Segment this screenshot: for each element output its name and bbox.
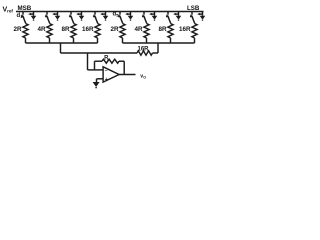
ground throw of switch S3 xyxy=(76,12,84,21)
resistor 16R (bit 4) xyxy=(82,24,100,44)
switch S5 (bit d5) xyxy=(118,12,123,24)
label d5 xyxy=(113,12,120,18)
svg-text:4R: 4R xyxy=(134,26,143,33)
switch S7 (bit d7) xyxy=(166,12,171,24)
wire: MSB group bottom bus xyxy=(26,42,98,44)
switch S1 (bit d1) xyxy=(21,12,26,24)
switch S6 (bit d6) xyxy=(142,12,147,24)
switch S8 (bit d8) xyxy=(190,12,195,24)
svg-text:vO: vO xyxy=(140,74,146,80)
label d1 xyxy=(17,13,24,19)
svg-text:8R: 8R xyxy=(158,26,167,33)
svg-text:2R: 2R xyxy=(13,26,22,33)
svg-text:d1: d1 xyxy=(17,13,24,19)
wire: V_REF top rail xyxy=(16,11,204,13)
resistor 4R (bit 2) xyxy=(37,24,52,44)
svg-text:MSB: MSB xyxy=(18,5,32,12)
resistor 4R (bit 6) xyxy=(134,24,149,44)
wire: non-inverting input to ground xyxy=(97,79,104,82)
svg-text:LSB: LSB xyxy=(187,5,200,12)
wire: LSB group bottom bus xyxy=(123,42,195,44)
svg-text:+: + xyxy=(105,77,108,83)
ground throw of switch S8 xyxy=(197,12,205,21)
svg-text:R: R xyxy=(104,55,109,61)
svg-text:16R: 16R xyxy=(179,26,191,33)
ground throw of switch S4 xyxy=(100,12,108,21)
svg-text:16R: 16R xyxy=(137,47,149,53)
svg-text:16R: 16R xyxy=(82,26,94,33)
ground (op-amp + input) xyxy=(93,82,100,88)
ground throw of switch S7 xyxy=(173,12,181,21)
wire: 16R up to LSB bus xyxy=(157,43,159,53)
resistor 8R (bit 7) xyxy=(158,24,173,44)
label LSB xyxy=(187,5,200,12)
resistor 16R (bit 8) xyxy=(179,24,197,44)
wire: op-amp output xyxy=(119,74,135,76)
resistor 8R (bit 3) xyxy=(61,24,76,44)
resistor 16R (series current divider) xyxy=(137,47,158,56)
wire: feedback down to output xyxy=(123,61,125,74)
switch S3 (bit d3) xyxy=(69,12,74,24)
node vO output label xyxy=(140,74,146,80)
op-amp U1 xyxy=(103,67,119,83)
ground throw of switch S1 xyxy=(28,12,36,21)
svg-text:Vref: Vref xyxy=(3,7,14,14)
svg-text:2R: 2R xyxy=(110,26,119,33)
ground throw of switch S5 xyxy=(125,12,133,21)
label MSB xyxy=(18,5,32,12)
node V_REF label xyxy=(3,7,14,14)
ground throw of switch S2 xyxy=(52,12,60,21)
resistor R (feedback) xyxy=(95,55,125,63)
wire: MSB bus drop to summing node xyxy=(60,43,62,53)
resistor 2R (bit 5) xyxy=(110,24,125,44)
svg-text:d5: d5 xyxy=(113,12,120,18)
switch S4 (bit d4) xyxy=(93,12,98,24)
svg-text:4R: 4R xyxy=(37,26,46,33)
switch S2 (bit d2) xyxy=(45,12,50,24)
wire: summing node down to inverting input xyxy=(88,53,104,70)
svg-text:8R: 8R xyxy=(61,26,70,33)
wire: feedback tap xyxy=(94,61,96,70)
ground throw of switch S6 xyxy=(149,12,157,21)
wire: summing node horizontal xyxy=(61,52,138,54)
svg-text:−: − xyxy=(105,68,108,74)
resistor 2R (bit 1) xyxy=(13,24,28,44)
